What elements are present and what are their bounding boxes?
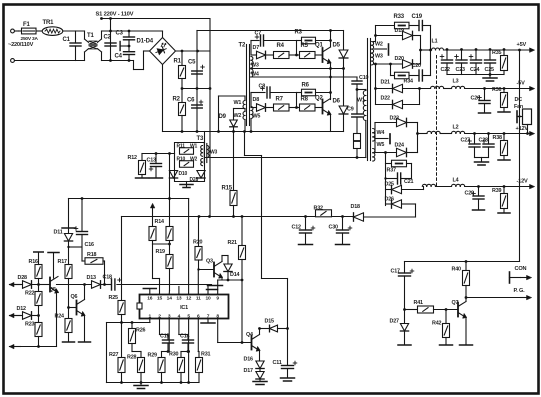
svg-text:L1: L1 (432, 39, 438, 45)
transistor Q3 (197, 256, 228, 295)
input terminal J2 (11, 59, 85, 63)
svg-text:+5V: +5V (517, 42, 527, 48)
svg-text:W2: W2 (375, 42, 383, 48)
diode D20 (374, 56, 420, 68)
resistor R21 (228, 217, 246, 343)
resistor R10 (177, 157, 198, 168)
wire (475, 158, 489, 162)
resistor R39 (492, 185, 510, 213)
diode D7 (253, 45, 274, 59)
svg-text:D28: D28 (18, 275, 27, 281)
capacitor C29 (465, 185, 485, 210)
wire (251, 41, 257, 56)
svg-text:T3: T3 (197, 136, 204, 142)
capacitor C30 (329, 217, 352, 245)
svg-text:16: 16 (147, 296, 153, 302)
svg-text:R33: R33 (394, 14, 405, 20)
svg-text:Q6: Q6 (71, 294, 78, 300)
svg-text:C3: C3 (116, 31, 124, 37)
svg-text:R18: R18 (87, 252, 96, 258)
svg-text:L4: L4 (453, 178, 459, 184)
svg-text:C21: C21 (404, 179, 413, 185)
svg-text:R22: R22 (25, 291, 34, 297)
resistor R17 (58, 242, 73, 309)
svg-text:D23: D23 (390, 116, 399, 122)
svg-text:11: 11 (196, 296, 201, 302)
resistor R33 (376, 14, 410, 29)
svg-text:W4: W4 (377, 130, 385, 136)
svg-text:D25: D25 (385, 182, 394, 188)
resistor R41 (403, 300, 458, 313)
capacitor C7 (251, 31, 297, 47)
resistor R7 (274, 97, 300, 112)
svg-text:R4: R4 (277, 43, 285, 49)
svg-text:C18: C18 (103, 275, 112, 281)
svg-text:D20: D20 (395, 56, 404, 62)
resistor R30 (169, 352, 189, 383)
svg-text:C11: C11 (273, 360, 282, 366)
winding T2-W2 (234, 109, 246, 120)
svg-text:12: 12 (186, 296, 192, 302)
svg-text:D10: D10 (179, 171, 188, 177)
capacitor C23 (455, 48, 467, 74)
capacitor C5 (188, 60, 204, 75)
choke winding (422, 184, 451, 186)
wire (102, 30, 163, 32)
pin16 cap bar (143, 289, 156, 295)
svg-text:R3: R3 (295, 30, 303, 36)
capacitor C13 (147, 152, 163, 178)
svg-text:C23: C23 (456, 67, 465, 73)
fuse F1 (19, 22, 44, 42)
inductor L2 (452, 125, 531, 134)
common-mode choke T1 (85, 31, 102, 61)
ground (134, 383, 148, 389)
svg-text:C12: C12 (292, 225, 301, 231)
svg-text:R11: R11 (177, 144, 186, 150)
rail 382 (107, 381, 200, 384)
capacitor C3 (116, 30, 135, 46)
rail primary return (205, 156, 366, 159)
label S1 220V - 110V (96, 12, 134, 18)
svg-text:C24: C24 (470, 67, 479, 73)
svg-text:W2: W2 (190, 157, 198, 163)
pin4 wire (179, 319, 188, 341)
resistor R42 (432, 310, 453, 346)
wire +12V rail (418, 131, 452, 133)
diode D16 (244, 357, 265, 369)
svg-text:W1: W1 (234, 100, 242, 106)
resistor R5 (300, 43, 323, 59)
svg-text:R25: R25 (109, 295, 118, 301)
wire (142, 152, 175, 155)
svg-text:W3: W3 (210, 150, 218, 156)
capacitor C1 (63, 37, 82, 61)
rail 284 (39, 284, 212, 286)
pin5 wire (187, 319, 190, 383)
svg-text:C17: C17 (391, 269, 400, 275)
svg-text:14: 14 (167, 296, 173, 302)
diode D27 (390, 310, 412, 346)
resistor R38 (493, 132, 511, 160)
capacitor C8 (251, 84, 297, 99)
svg-text:R41: R41 (414, 300, 423, 306)
pin10 bar (207, 286, 223, 295)
row Q4 base (218, 341, 252, 344)
T3 box (175, 143, 205, 182)
bridge rectifier D1-D4 (137, 38, 176, 65)
winding T2-W3 (251, 57, 259, 69)
diode D13 (87, 275, 101, 288)
winding T2-W1 (234, 96, 246, 109)
rail 216 (122, 215, 354, 218)
wire (374, 64, 376, 105)
pin7 ground (201, 319, 215, 324)
svg-text:R39: R39 (492, 188, 501, 194)
T3 ground (180, 182, 193, 188)
snubber C20 (409, 63, 431, 81)
svg-text:15: 15 (157, 296, 163, 302)
capacitor C14 (180, 334, 194, 353)
resistor R14a (149, 219, 164, 241)
svg-text:R7: R7 (276, 97, 284, 103)
svg-text:R10: R10 (177, 157, 186, 163)
wire (106, 323, 108, 383)
svg-text:C8: C8 (259, 84, 266, 90)
resistor R40 (452, 262, 470, 298)
diode D17 (244, 368, 265, 381)
svg-text:C13: C13 (147, 158, 156, 164)
svg-text:R19: R19 (156, 249, 165, 255)
wire (102, 60, 134, 62)
resistor R6 (297, 83, 331, 108)
resistor R23 (25, 322, 42, 347)
node mid rail (181, 87, 212, 90)
resistor R16 (29, 252, 44, 292)
terminal arrow 3 (10, 344, 57, 348)
capacitor C4 (115, 45, 135, 62)
svg-text:R6: R6 (302, 83, 310, 89)
wire (415, 204, 417, 217)
svg-text:C5: C5 (188, 60, 196, 66)
wire bridge plus (176, 50, 211, 53)
svg-text:C2: C2 (104, 35, 112, 41)
input terminal J1 (11, 29, 19, 33)
wire (63, 31, 85, 43)
svg-text:R2: R2 (173, 97, 181, 103)
switch S1 rail (100, 17, 209, 20)
wire Q4 emitter (259, 351, 261, 362)
wire (153, 244, 160, 295)
svg-text:R14: R14 (155, 219, 164, 225)
resistor R2 (173, 79, 186, 132)
arrow +5V (530, 48, 535, 52)
inductor L1 (419, 39, 530, 52)
wire Q4 collector (259, 329, 261, 335)
pin13 stub (178, 287, 180, 295)
svg-text:Q4: Q4 (246, 332, 253, 338)
wire (251, 93, 257, 108)
svg-text:L2: L2 (453, 125, 459, 131)
row Q3 emitter (218, 279, 244, 282)
wire AC2 to bridge (134, 51, 150, 70)
wire Q6 collector (83, 283, 86, 299)
pin8 wire (217, 319, 219, 343)
capacitor C15 (160, 334, 174, 352)
resistor R29 (148, 353, 166, 383)
wire (68, 199, 70, 229)
diode D26 (385, 197, 416, 209)
svg-text:C6: C6 (187, 98, 195, 104)
wire rail 322 (107, 321, 151, 324)
capacitor C26 (471, 87, 491, 113)
switch S1 contact (120, 42, 129, 51)
svg-text:TR1: TR1 (43, 20, 55, 26)
resistor R22 (25, 291, 42, 323)
capacitor C12 (292, 217, 315, 245)
resistor R15 (222, 186, 238, 217)
svg-text:L3: L3 (453, 79, 459, 85)
svg-text:R38: R38 (493, 135, 502, 141)
diode D23 (375, 116, 418, 153)
svg-text:W2: W2 (234, 113, 242, 119)
svg-text:R8: R8 (301, 97, 309, 103)
wire Q6 emitter (79, 316, 91, 343)
label +12V (516, 126, 529, 132)
svg-text:W5: W5 (253, 114, 261, 120)
svg-text:R24: R24 (55, 314, 64, 320)
resistor R31 (196, 352, 211, 383)
pin6 wire (197, 319, 200, 358)
transformer T3 core (197, 136, 207, 166)
diode D28b (190, 171, 206, 184)
choke winding -5 (431, 86, 444, 88)
capacitor C10 (352, 75, 368, 91)
arrow +12V (530, 131, 535, 135)
svg-text:-5V: -5V (517, 81, 526, 87)
svg-text:C4: C4 (115, 54, 123, 60)
center tap bar (375, 44, 389, 55)
wire (374, 26, 376, 42)
label -12V (517, 179, 528, 185)
winding W5 sec (373, 142, 385, 161)
svg-text:W3: W3 (251, 63, 259, 69)
resistor R32 (314, 206, 332, 217)
resistor R25 (109, 217, 126, 323)
capacitor C18 (103, 275, 122, 291)
terminal arrow up (150, 204, 154, 227)
diode D5 (333, 31, 348, 69)
svg-text:F1: F1 (23, 22, 30, 28)
svg-text:D12: D12 (17, 306, 26, 312)
wire T2 primary loop (219, 96, 246, 132)
svg-text:Q1: Q1 (315, 43, 323, 49)
resistor R35 (492, 48, 508, 74)
svg-text:W3: W3 (375, 54, 383, 60)
svg-text:R37: R37 (387, 168, 396, 174)
svg-text:R21: R21 (228, 240, 237, 246)
diode D12 (17, 306, 39, 319)
diode D24 (375, 132, 419, 157)
svg-text:Q2: Q2 (315, 96, 323, 102)
svg-text:13: 13 (176, 296, 182, 302)
winding W2 sec (372, 42, 383, 53)
wire S1 feed (209, 19, 211, 217)
svg-text:C7: C7 (255, 31, 262, 37)
resistor R4 (274, 43, 300, 59)
svg-text:R42: R42 (432, 321, 441, 327)
svg-text:R5: R5 (301, 43, 309, 49)
diode D19 (374, 28, 420, 40)
diode D9 (219, 114, 238, 191)
capacitor C6 (187, 98, 203, 109)
transistor Q5 (49, 277, 59, 294)
svg-text:R27: R27 (109, 352, 118, 358)
terminal arrow 1 (10, 282, 23, 286)
diode D14 (224, 256, 240, 281)
winding T3-W3 (207, 146, 218, 158)
resistor R27 (109, 323, 125, 383)
rail PG top (405, 260, 520, 263)
rail 131-elbow (245, 132, 288, 329)
terminal CON (510, 266, 532, 283)
main transformer core (368, 39, 371, 161)
resistor R24 (55, 308, 75, 343)
inductor L3 (444, 79, 531, 89)
svg-text:R35: R35 (492, 50, 501, 56)
IC1 TL494 (137, 295, 229, 320)
svg-text:C19: C19 (412, 14, 423, 20)
wire to pin12 (188, 199, 190, 295)
resistor R20 (193, 217, 202, 270)
svg-text:C15: C15 (160, 334, 169, 340)
svg-text:C26: C26 (471, 96, 480, 102)
svg-text:D27: D27 (390, 319, 399, 325)
svg-text:D22: D22 (381, 96, 390, 102)
svg-text:10: 10 (205, 296, 211, 302)
resistor R14b (166, 227, 173, 241)
svg-text:R36: R36 (492, 87, 501, 93)
diode D15 (258, 319, 289, 332)
svg-text:D13: D13 (87, 275, 96, 281)
transistor Q6 (69, 294, 86, 316)
rail T2-W4 (250, 76, 357, 78)
svg-text:C29: C29 (465, 191, 474, 197)
svg-text:C30: C30 (329, 225, 338, 231)
rail T2-W3 (250, 67, 345, 70)
svg-text:R32: R32 (314, 206, 323, 212)
svg-text:Q3: Q3 (206, 259, 213, 265)
wire (244, 120, 246, 132)
resistor R18 (82, 252, 106, 286)
wire bridge minus (162, 65, 164, 132)
snubber R34 (389, 63, 413, 85)
svg-text:C9: C9 (347, 107, 354, 113)
svg-text:T1: T1 (87, 33, 94, 39)
svg-text:D17: D17 (244, 368, 253, 374)
bus +5V right (518, 49, 521, 262)
capacitor C28 (479, 132, 495, 157)
rail B- (163, 130, 344, 133)
capacitor C19 (409, 14, 431, 31)
transistor Q2 (315, 96, 331, 132)
svg-text:Fan: Fan (514, 104, 523, 110)
transistor Q7 (452, 300, 467, 318)
svg-text:D16: D16 (244, 357, 253, 363)
resistor R12 (128, 154, 149, 179)
svg-text:W1: W1 (357, 98, 365, 104)
snubber C21 (384, 173, 413, 185)
svg-text:C22: C22 (441, 67, 450, 73)
diode D21 (374, 80, 430, 93)
svg-text:R12: R12 (128, 155, 137, 161)
label -5V (517, 81, 526, 87)
wire C16 tap (69, 246, 83, 248)
diode D6 (333, 69, 348, 132)
svg-text:R31: R31 (201, 352, 210, 358)
svg-text:R40: R40 (452, 267, 461, 273)
svg-text:D1-D4: D1-D4 (137, 39, 154, 45)
svg-text:S1 220V - 110V: S1 220V - 110V (96, 12, 134, 18)
snubber resistor (354, 134, 361, 158)
svg-text:R23: R23 (25, 322, 34, 328)
resistor R19 (156, 244, 174, 295)
svg-text:D21: D21 (381, 80, 390, 86)
winding W3 sec (372, 54, 383, 65)
svg-text:IC1: IC1 (180, 305, 188, 311)
svg-text:C1: C1 (63, 37, 71, 43)
snubber R37 (386, 153, 412, 206)
wire (447, 73, 504, 77)
svg-text:C14: C14 (180, 334, 189, 340)
resistor R1 (174, 51, 186, 79)
wire (162, 31, 164, 38)
transistor Q4 (246, 332, 260, 351)
svg-text:C20: C20 (412, 63, 421, 69)
svg-text:D19: D19 (395, 28, 404, 34)
diode D18 (332, 204, 416, 221)
terminal arrow 2 (10, 313, 23, 317)
svg-text:D5: D5 (333, 43, 341, 49)
svg-text:R29: R29 (148, 353, 157, 359)
svg-text:D11: D11 (54, 230, 63, 236)
wire Q7 collector (465, 298, 467, 302)
label +5V (517, 42, 527, 48)
svg-text:D18: D18 (351, 204, 360, 210)
wire (421, 26, 431, 76)
transformer T2 core (239, 43, 250, 126)
inductor L4 (452, 178, 531, 187)
arrow -12V (530, 184, 535, 188)
resistor R28 (127, 355, 145, 383)
capacitor C22 (440, 48, 452, 74)
wire (204, 132, 206, 143)
svg-text:R15: R15 (222, 186, 233, 192)
wire B+ riser (196, 31, 198, 132)
diode D8 (253, 97, 274, 111)
rail B+ (197, 30, 344, 32)
svg-text:+12V: +12V (516, 126, 529, 132)
transistor Q1 (315, 29, 332, 99)
wire center tap (375, 134, 390, 144)
resistor R36 (492, 87, 510, 112)
pin2 wire (160, 319, 169, 341)
capacitor C27 (461, 132, 481, 157)
svg-text:D7: D7 (253, 45, 260, 51)
svg-text:R1: R1 (174, 59, 182, 65)
svg-text:D28: D28 (190, 177, 199, 183)
svg-text:Q7: Q7 (452, 300, 459, 306)
